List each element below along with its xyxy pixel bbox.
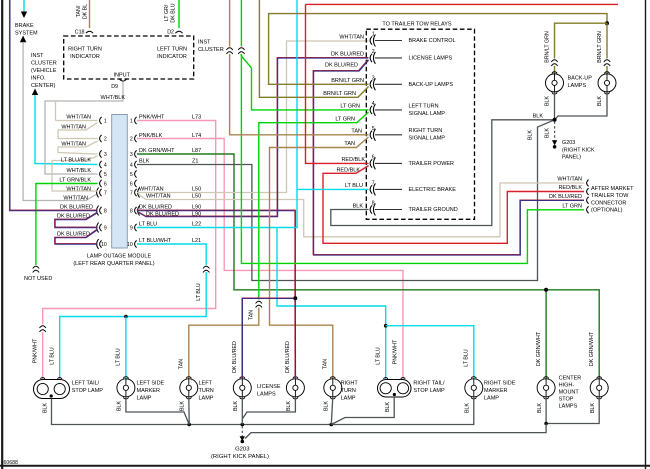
svg-text:DK BLU/RED: DK BLU/RED	[60, 204, 93, 210]
svg-text:L50: L50	[192, 186, 201, 192]
svg-text:BRN/LT GRN: BRN/LT GRN	[323, 91, 356, 97]
svg-text:4: 4	[372, 101, 375, 107]
svg-text:DK BL: DK BL	[83, 4, 89, 19]
svg-text:6: 6	[372, 154, 375, 160]
svg-text:(OPTIONAL): (OPTIONAL)	[591, 208, 623, 214]
svg-text:TO TRAILER TOW RELAYS: TO TRAILER TOW RELAYS	[382, 22, 452, 28]
svg-text:WHT/TAN: WHT/TAN	[66, 186, 91, 192]
svg-text:LAMP: LAMP	[341, 396, 356, 402]
svg-text:7: 7	[372, 180, 375, 186]
svg-text:BLK: BLK	[233, 401, 239, 411]
svg-text:NOT USED: NOT USED	[24, 276, 52, 282]
svg-text:DK BLU/RED: DK BLU/RED	[232, 341, 238, 373]
svg-text:LT GR/: LT GR/	[164, 4, 170, 21]
svg-text:L73: L73	[192, 114, 201, 120]
svg-text:LEFT TURN: LEFT TURN	[409, 103, 439, 109]
svg-text:L50: L50	[192, 194, 201, 200]
svg-text:BACK-UP: BACK-UP	[568, 76, 593, 82]
svg-text:LT BLU: LT BLU	[376, 347, 382, 365]
svg-text:LEFT TAIL/: LEFT TAIL/	[72, 381, 100, 387]
svg-text:G203: G203	[562, 140, 575, 146]
svg-text:4: 4	[130, 163, 133, 169]
svg-text:LT GRN: LT GRN	[335, 117, 355, 123]
svg-text:BLK: BLK	[597, 96, 603, 106]
svg-text:BACK-UP LAMPS: BACK-UP LAMPS	[409, 82, 454, 88]
svg-text:BLK: BLK	[533, 113, 544, 119]
svg-text:D2: D2	[167, 30, 174, 36]
svg-text:DK BLU/RED: DK BLU/RED	[139, 204, 172, 210]
svg-text:BLK: BLK	[590, 403, 596, 413]
svg-text:BLK: BLK	[43, 403, 49, 413]
svg-text:PNK/WHT: PNK/WHT	[393, 339, 399, 364]
svg-text:9: 9	[130, 226, 133, 232]
svg-text:6: 6	[130, 182, 133, 188]
svg-text:STOP LAMP: STOP LAMP	[72, 388, 104, 394]
svg-text:60688: 60688	[4, 460, 19, 466]
svg-text:PNK/BLK: PNK/BLK	[139, 133, 163, 139]
svg-text:AFTER MARKET: AFTER MARKET	[591, 186, 634, 192]
svg-text:WHT/TAN: WHT/TAN	[139, 186, 164, 192]
svg-text:8: 8	[130, 209, 133, 215]
svg-text:LT GRN: LT GRN	[340, 104, 360, 110]
svg-text:CENTER: CENTER	[559, 376, 582, 382]
svg-text:LEFT: LEFT	[199, 381, 213, 387]
svg-text:2: 2	[372, 49, 375, 55]
svg-text:WHT/TAN: WHT/TAN	[146, 194, 171, 200]
svg-text:3: 3	[372, 75, 375, 81]
svg-text:8: 8	[104, 209, 107, 215]
svg-text:RED/BLK: RED/BLK	[558, 185, 582, 191]
svg-text:RIGHT: RIGHT	[341, 381, 359, 387]
svg-text:TAN/: TAN/	[76, 5, 82, 17]
svg-text:SYSTEM: SYSTEM	[15, 31, 38, 37]
svg-text:(VEHICLE: (VEHICLE	[31, 68, 57, 74]
svg-text:MOUNT: MOUNT	[559, 390, 580, 396]
svg-text:TAN: TAN	[249, 310, 255, 320]
svg-text:5: 5	[372, 126, 375, 132]
svg-text:BLK: BLK	[353, 203, 364, 209]
svg-text:CENTER): CENTER)	[31, 83, 56, 89]
svg-text:ELECTRIC BRAKE: ELECTRIC BRAKE	[409, 187, 457, 193]
svg-text:LAMPS: LAMPS	[568, 83, 587, 89]
svg-text:LT BLU/WHT: LT BLU/WHT	[139, 238, 172, 244]
svg-text:C18: C18	[75, 30, 85, 36]
svg-text:BLK: BLK	[324, 401, 330, 411]
svg-text:L90: L90	[192, 212, 201, 218]
svg-text:BLK: BLK	[545, 96, 551, 106]
svg-text:2: 2	[130, 137, 133, 143]
svg-text:D9: D9	[111, 84, 118, 90]
svg-text:BLK: BLK	[537, 403, 543, 413]
svg-text:HIGH-: HIGH-	[559, 383, 575, 389]
svg-text:LEFT SIDE: LEFT SIDE	[137, 381, 165, 387]
svg-text:DK BLU/RED: DK BLU/RED	[146, 212, 179, 218]
svg-text:WHT/TAN: WHT/TAN	[66, 114, 91, 120]
svg-text:LT BLU/BLK: LT BLU/BLK	[61, 157, 91, 163]
svg-text:L74: L74	[192, 133, 201, 139]
svg-text:BLK: BLK	[545, 128, 551, 138]
svg-text:DK GRN/WHT: DK GRN/WHT	[589, 331, 595, 366]
svg-text:WHT/TAN: WHT/TAN	[339, 34, 364, 40]
svg-text:TRAILER TOW: TRAILER TOW	[591, 193, 629, 199]
svg-text:BRN/LT GRN: BRN/LT GRN	[597, 31, 603, 63]
svg-text:LAMP: LAMP	[137, 396, 152, 402]
svg-text:9: 9	[104, 226, 107, 232]
svg-text:LEFT TURN: LEFT TURN	[157, 47, 187, 53]
svg-text:TRAILER POWER: TRAILER POWER	[409, 161, 455, 167]
svg-text:CLUSTER: CLUSTER	[31, 61, 57, 67]
svg-text:TAN: TAN	[344, 141, 355, 147]
svg-text:STOP: STOP	[559, 397, 574, 403]
svg-text:LT BLU: LT BLU	[196, 283, 202, 301]
svg-text:1: 1	[104, 119, 107, 125]
svg-text:BLK: BLK	[139, 158, 150, 164]
svg-text:INPUT: INPUT	[114, 73, 131, 79]
svg-text:10: 10	[127, 242, 133, 248]
svg-text:BLK: BLK	[286, 401, 292, 411]
svg-text:BLK: BLK	[385, 402, 391, 412]
svg-text:SIGNAL LAMP: SIGNAL LAMP	[409, 136, 446, 142]
svg-text:LT BLU: LT BLU	[116, 348, 122, 366]
svg-text:3: 3	[104, 152, 107, 158]
svg-text:LT BLU: LT BLU	[345, 183, 363, 189]
svg-text:PANEL): PANEL)	[562, 155, 581, 161]
svg-text:LAMP: LAMP	[484, 396, 499, 402]
svg-text:BRAKE CONTROL: BRAKE CONTROL	[409, 38, 456, 44]
svg-text:L21: L21	[192, 238, 201, 244]
svg-text:WHT/TAN: WHT/TAN	[557, 177, 582, 183]
svg-text:7: 7	[104, 191, 107, 197]
svg-text:TURN: TURN	[199, 388, 214, 394]
svg-text:LAMP: LAMP	[199, 396, 214, 402]
svg-text:1: 1	[130, 119, 133, 125]
svg-text:L90: L90	[192, 204, 201, 210]
svg-text:BLK: BLK	[465, 403, 471, 413]
svg-text:LT BLU: LT BLU	[50, 347, 56, 365]
svg-text:RED/BLK: RED/BLK	[341, 157, 365, 163]
svg-text:DK BLU/RED: DK BLU/RED	[325, 63, 358, 69]
svg-text:PNK/WHT: PNK/WHT	[33, 338, 39, 363]
svg-text:LICENSE: LICENSE	[257, 384, 281, 390]
svg-text:DK BLU/RED: DK BLU/RED	[285, 341, 291, 373]
svg-text:7: 7	[130, 191, 133, 197]
svg-text:G203: G203	[235, 447, 250, 453]
svg-text:LAMPS: LAMPS	[257, 392, 276, 398]
svg-text:BLK: BLK	[180, 401, 186, 411]
svg-text:BRAKE: BRAKE	[15, 23, 34, 29]
svg-text:MARKER: MARKER	[137, 388, 161, 394]
svg-text:2: 2	[104, 137, 107, 143]
svg-text:Z1: Z1	[192, 158, 198, 164]
svg-text:5: 5	[104, 172, 107, 178]
svg-text:MARKER: MARKER	[484, 388, 508, 394]
svg-text:INST: INST	[31, 53, 44, 59]
svg-text:WHT/TAN: WHT/TAN	[63, 195, 88, 201]
svg-text:LT GRN/BLK: LT GRN/BLK	[59, 177, 91, 183]
svg-text:WHT/TAN: WHT/TAN	[61, 124, 86, 130]
svg-text:SIGNAL LAMP: SIGNAL LAMP	[409, 111, 446, 117]
svg-text:LT BLU: LT BLU	[139, 221, 157, 227]
svg-text:INST: INST	[198, 40, 211, 46]
svg-text:4: 4	[104, 163, 107, 169]
svg-text:DK BLU/RED: DK BLU/RED	[331, 52, 364, 58]
svg-text:BRN/LT GRN: BRN/LT GRN	[545, 31, 551, 63]
svg-text:LAMP OUTAGE MODULE: LAMP OUTAGE MODULE	[87, 254, 152, 260]
svg-text:WHT/BLK: WHT/BLK	[67, 168, 92, 174]
svg-text:TAN: TAN	[323, 359, 329, 369]
svg-text:CLUSTER: CLUSTER	[198, 47, 224, 53]
svg-text:TAN: TAN	[351, 129, 362, 135]
svg-text:INDICATOR: INDICATOR	[157, 54, 187, 60]
svg-text:DK BLU/RED: DK BLU/RED	[57, 231, 90, 237]
svg-text:(LEFT REAR QUARTER PANEL): (LEFT REAR QUARTER PANEL)	[73, 261, 154, 267]
svg-text:BRN/LT GRN: BRN/LT GRN	[331, 78, 364, 84]
svg-text:6: 6	[104, 182, 107, 188]
svg-text:5: 5	[130, 172, 133, 178]
svg-text:INDICATOR: INDICATOR	[70, 54, 100, 60]
svg-text:LICENSE LAMPS: LICENSE LAMPS	[409, 56, 453, 62]
svg-text:LT GRN: LT GRN	[562, 204, 582, 210]
svg-text:STOP LAMP: STOP LAMP	[413, 388, 445, 394]
svg-text:PNK/WHT: PNK/WHT	[139, 114, 165, 120]
svg-text:CONNECTOR: CONNECTOR	[591, 200, 626, 206]
svg-text:10: 10	[101, 242, 107, 248]
svg-text:DK BLU: DK BLU	[171, 3, 177, 22]
svg-text:RIGHT TURN: RIGHT TURN	[68, 47, 102, 53]
svg-text:L87: L87	[192, 148, 201, 154]
svg-text:LAMPS: LAMPS	[559, 404, 578, 410]
svg-text:LT BLU: LT BLU	[464, 349, 470, 367]
svg-text:3: 3	[130, 152, 133, 158]
svg-text:RIGHT TAIL/: RIGHT TAIL/	[413, 381, 445, 387]
svg-text:TRAILER GROUND: TRAILER GROUND	[409, 207, 458, 213]
svg-text:BLK: BLK	[117, 401, 123, 411]
svg-text:INFO.: INFO.	[31, 76, 46, 82]
svg-text:(RIGHT KICK: (RIGHT KICK	[562, 147, 595, 153]
svg-text:8: 8	[372, 201, 375, 207]
svg-text:BLK: BLK	[528, 130, 534, 140]
svg-text:RIGHT SIDE: RIGHT SIDE	[484, 381, 516, 387]
svg-text:DK BLU/RED: DK BLU/RED	[549, 194, 582, 200]
svg-text:DK GRN/WHT: DK GRN/WHT	[536, 331, 542, 366]
svg-text:L22: L22	[192, 221, 201, 227]
svg-text:DK GRN/WHT: DK GRN/WHT	[139, 148, 175, 154]
svg-text:1: 1	[372, 32, 375, 38]
svg-text:WHT/TAN: WHT/TAN	[61, 142, 86, 148]
svg-text:TURN: TURN	[341, 388, 356, 394]
svg-text:(RIGHT KICK PANEL): (RIGHT KICK PANEL)	[211, 454, 269, 460]
svg-text:WHT/BLK: WHT/BLK	[101, 95, 126, 101]
svg-text:TAN: TAN	[179, 359, 185, 369]
svg-text:RIGHT TURN: RIGHT TURN	[409, 128, 443, 134]
